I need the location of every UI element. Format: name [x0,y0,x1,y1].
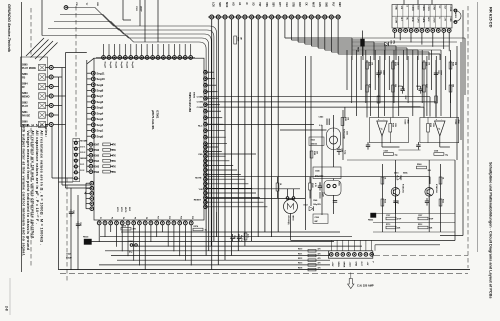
svg-text:C561: C561 [437,70,439,74]
svg-text:Y.IN: Y.IN [198,189,202,191]
svg-text:Seg17: Seg17 [104,62,106,69]
svg-text:47K: 47K [112,165,117,168]
svg-text:R567: R567 [368,84,370,88]
svg-text:+12V: +12V [331,262,333,268]
svg-text:PB: PB [75,3,77,6]
svg-text:DM: DM [96,3,98,7]
svg-text:C.N. 325 AMP: C.N. 325 AMP [357,284,374,288]
svg-text:COM2: COM2 [197,102,204,104]
svg-text:DET: DET [338,2,340,7]
svg-text:OUT: OUT [360,262,362,267]
svg-text:R597: R597 [93,144,99,147]
svg-text:SPKR: SPKR [343,262,345,268]
svg-text:+5V: +5V [366,262,368,266]
svg-text:DO 2: DO 2 [80,152,86,154]
svg-text:DATA: DATA [422,6,425,12]
svg-text:R571: R571 [298,253,302,255]
svg-text:P12: P12 [168,216,170,219]
svg-text:EFM: EFM [433,6,435,11]
svg-text:NLC: NLC [198,126,203,128]
svg-text:R575: R575 [122,226,127,228]
svg-text:P2: P2 [111,217,113,219]
svg-text:C2PO: C2PO [416,17,418,23]
svg-text:R713: R713 [386,224,390,226]
svg-text:R560: R560 [417,164,422,166]
svg-text:KTA1266: KTA1266 [402,184,405,194]
svg-text:P10: P10 [157,216,159,219]
svg-text:FB: FB [22,77,25,80]
svg-text:1000P: 1000P [140,6,142,12]
svg-text:MODE: MODE [80,140,87,142]
svg-text:LDON: LDON [395,17,397,23]
svg-text:Seg1: Seg1 [97,129,104,133]
svg-text:D551: D551 [394,173,399,175]
svg-text:C545: C545 [72,210,75,214]
svg-text:R593: R593 [93,165,99,168]
svg-text:C541: C541 [129,240,134,243]
svg-text:R512: R512 [418,224,422,226]
svg-text:3. All resistors are 1/8 watt: 3. All resistors are 1/8 watt, unless ot… [31,124,35,240]
svg-text:EFM: EFM [411,17,413,22]
svg-text:SNS: SNS [325,2,327,7]
svg-text:C554: C554 [315,216,319,219]
svg-text:with output meter at line volu: with output meter at line volume control… [22,123,26,256]
svg-text:R573: R573 [298,263,302,265]
svg-text:R595: R595 [93,154,99,157]
svg-text:F8504: F8504 [357,47,360,52]
svg-text:MEMO: MEMO [22,96,30,99]
svg-text:GND: GND [395,6,397,11]
svg-text:1. All resistance values are: 1. All resistance values are in Ω . k = … [40,124,44,245]
svg-text:MUTE: MUTE [195,178,202,180]
svg-text:470: 470 [318,252,321,255]
svg-text:GRUNDIG Service-Technik: GRUNDIG Service-Technik [7,4,11,53]
svg-text:4558: 4558 [457,120,460,124]
svg-text:Seg12: Seg12 [131,62,133,69]
svg-text:10μ: 10μ [395,154,398,156]
svg-text:R514: R514 [384,199,387,203]
svg-text:COM1: COM1 [197,97,204,99]
svg-text:Seg9: Seg9 [97,83,104,87]
svg-text:470: 470 [318,248,321,251]
svg-text:4. Voltages measured from poi: 4. Voltages measured from point indicate… [26,124,30,250]
svg-text:VSS: VSS [198,154,203,156]
svg-text:955A: 955A [403,172,408,175]
svg-text:C558: C558 [434,151,438,153]
svg-text:TMP47C1637-3B4: TMP47C1637-3B4 [188,92,191,113]
svg-text:C545: C545 [315,170,320,173]
svg-text:LDON: LDON [449,6,451,12]
svg-text:C503: C503 [390,40,392,44]
svg-text:IC560: IC560 [404,120,406,125]
svg-text:C767: C767 [386,215,390,217]
svg-text:SPKL: SPKL [337,262,339,268]
svg-text:R594: R594 [93,160,99,163]
svg-text:DTY: DTY [278,2,280,7]
svg-text:2-8: 2-8 [5,306,9,311]
svg-text:AO: AO [232,2,235,6]
svg-text:MUTE: MUTE [124,207,126,213]
svg-text:R578: R578 [298,267,302,269]
svg-text:47μ/10V: 47μ/10V [240,235,243,242]
svg-text:MUT: MUT [311,2,313,8]
svg-text:LRCK: LRCK [411,6,413,12]
svg-text:XO: XO [252,2,254,6]
svg-text:C662: C662 [416,86,420,88]
svg-text:Seg6: Seg6 [97,100,104,104]
svg-text:0.33μ: 0.33μ [344,150,346,154]
svg-text:½: ½ [438,127,440,131]
svg-text:IC560: IC560 [454,120,456,125]
svg-text:C513: C513 [233,235,235,239]
svg-text:10μ: 10μ [445,154,448,156]
svg-text:Seg10: Seg10 [97,77,106,81]
svg-text:Seg11: Seg11 [97,71,106,75]
svg-text:C702: C702 [398,86,402,88]
svg-text:PLAY MODE: PLAY MODE [22,67,36,70]
svg-text:PLAY: PLAY [22,105,29,108]
svg-text:470: 470 [318,262,321,265]
svg-text:Seg2: Seg2 [97,123,104,127]
svg-text:MCK: MCK [225,2,227,8]
svg-text:½: ½ [381,127,383,131]
svg-text:Seg15: Seg15 [114,62,116,69]
svg-text:C557: C557 [418,215,422,217]
svg-text:R572: R572 [298,258,302,260]
svg-text:PLY: PLY [331,2,333,7]
svg-text:RR 615 CD: RR 615 CD [489,7,494,28]
svg-text:Notes:: Notes: [44,124,48,137]
svg-text:F8503: F8503 [83,237,88,239]
svg-text:C558: C558 [384,151,388,153]
svg-text:470μ/10V: 470μ/10V [315,175,324,178]
svg-text:4558: 4558 [407,120,410,124]
svg-text:5562: 5562 [346,131,348,135]
svg-text:560: 560 [316,151,318,154]
svg-text:F8502: F8502 [368,220,373,222]
svg-text:4.7K: 4.7K [314,183,317,188]
svg-text:CLX: CLX [285,2,287,7]
svg-text:P6: P6 [134,217,136,219]
svg-text:VSS: VSS [265,2,267,7]
svg-text:SBY: SBY [271,2,273,7]
svg-text:DO 1: DO 1 [80,146,86,148]
svg-text:LRCK: LRCK [433,17,435,23]
svg-text:R528: R528 [311,183,313,188]
svg-text:R596: R596 [93,149,99,152]
svg-text:Seg5: Seg5 [97,106,104,110]
svg-text:C512: C512 [397,200,399,204]
svg-text:MEMO: MEMO [80,158,87,160]
svg-text:STB: STB [291,2,293,7]
svg-text:C546: C546 [79,222,82,226]
svg-text:P4: P4 [122,217,125,219]
svg-text:SP02: SP02 [120,207,122,212]
svg-text:TST: TST [258,2,260,7]
svg-text:R570: R570 [298,249,302,251]
svg-text:100μ/25V: 100μ/25V [313,204,322,206]
svg-text:+5LO: +5LO [349,262,351,268]
svg-text:P8: P8 [145,217,147,219]
svg-text:C528: C528 [322,192,324,197]
svg-text:P16: P16 [191,216,193,219]
svg-text:CK: CK [305,2,307,6]
svg-text:LCK: LCK [212,2,214,7]
svg-text:R588: R588 [313,151,315,155]
svg-text:C561: C561 [380,70,382,74]
svg-text:Seg16: Seg16 [109,62,111,69]
svg-text:M860: M860 [291,216,293,222]
svg-text:R566: R566 [368,62,370,66]
svg-text:Seg14: Seg14 [120,62,123,69]
svg-text:47K: 47K [112,160,117,163]
svg-text:P14: P14 [180,216,183,219]
svg-text:JA0805: JA0805 [454,12,457,18]
svg-text:DAT: DAT [298,2,301,7]
svg-text:C546: C546 [313,199,317,202]
svg-text:SDT: SDT [218,2,220,7]
svg-text:XI: XI [245,2,247,5]
svg-text:SP01: SP01 [116,207,118,212]
svg-text:GND: GND [354,262,356,267]
svg-text:2. All capacitance values are: 2. All capacitance values are in μF . P … [35,124,39,224]
svg-text:R569: R569 [452,62,454,66]
svg-text:47K: 47K [112,149,117,152]
svg-text:47K: 47K [112,144,117,147]
svg-text:1000P: 1000P [440,70,442,76]
svg-text:C542: C542 [66,253,71,256]
svg-text:R568: R568 [429,123,431,127]
svg-text:Seg7: Seg7 [97,94,104,98]
svg-text:R567: R567 [425,84,427,88]
svg-text:470: 470 [318,257,321,260]
svg-text:470: 470 [318,266,321,269]
svg-text:μPD75-CLR-4PL: μPD75-CLR-4PL [151,110,155,130]
svg-text:Seg13: Seg13 [125,62,127,69]
svg-text:LDS: LDS [318,2,320,7]
svg-text:BCK: BCK [416,6,418,11]
svg-text:Seg8: Seg8 [97,89,104,93]
svg-text:P0: P0 [99,217,101,219]
svg-text:R589: R589 [344,117,346,121]
svg-text:Schaltpläne und Plattenabbildu: Schaltpläne und Plattenabbildungen · Cir… [489,162,493,299]
svg-text:C2PO: C2PO [427,6,429,12]
svg-text:99821: 99821 [193,92,195,99]
svg-text:M861: M861 [338,182,340,186]
svg-text:R569: R569 [394,62,396,66]
svg-text:BCK: BCK [427,17,429,22]
svg-text:R509: R509 [237,37,239,41]
svg-text:PAUSE: PAUSE [22,115,30,118]
svg-text:LED133: LED133 [311,143,318,145]
svg-text:COM3: COM3 [197,107,204,109]
svg-text:8TK131(B): 8TK131(B) [287,216,289,225]
svg-text:GND: GND [449,17,451,22]
svg-text:KTA1266: KTA1266 [435,184,438,194]
svg-text:Seg4: Seg4 [97,111,104,115]
svg-text:47K: 47K [112,154,117,157]
svg-text:1000P: 1000P [382,70,384,76]
svg-text:DATA: DATA [422,17,425,23]
svg-text:Seg0: Seg0 [97,134,104,138]
svg-text:R568: R568 [392,123,394,127]
svg-text:47K: 47K [112,171,117,174]
svg-text:IC7501: IC7501 [156,110,160,119]
svg-text:R515: R515 [442,199,444,203]
svg-text:Seg3: Seg3 [97,117,104,121]
svg-text:R592: R592 [93,171,99,174]
svg-text:R566: R566 [425,62,427,66]
svg-text:RESET: RESET [194,199,202,201]
